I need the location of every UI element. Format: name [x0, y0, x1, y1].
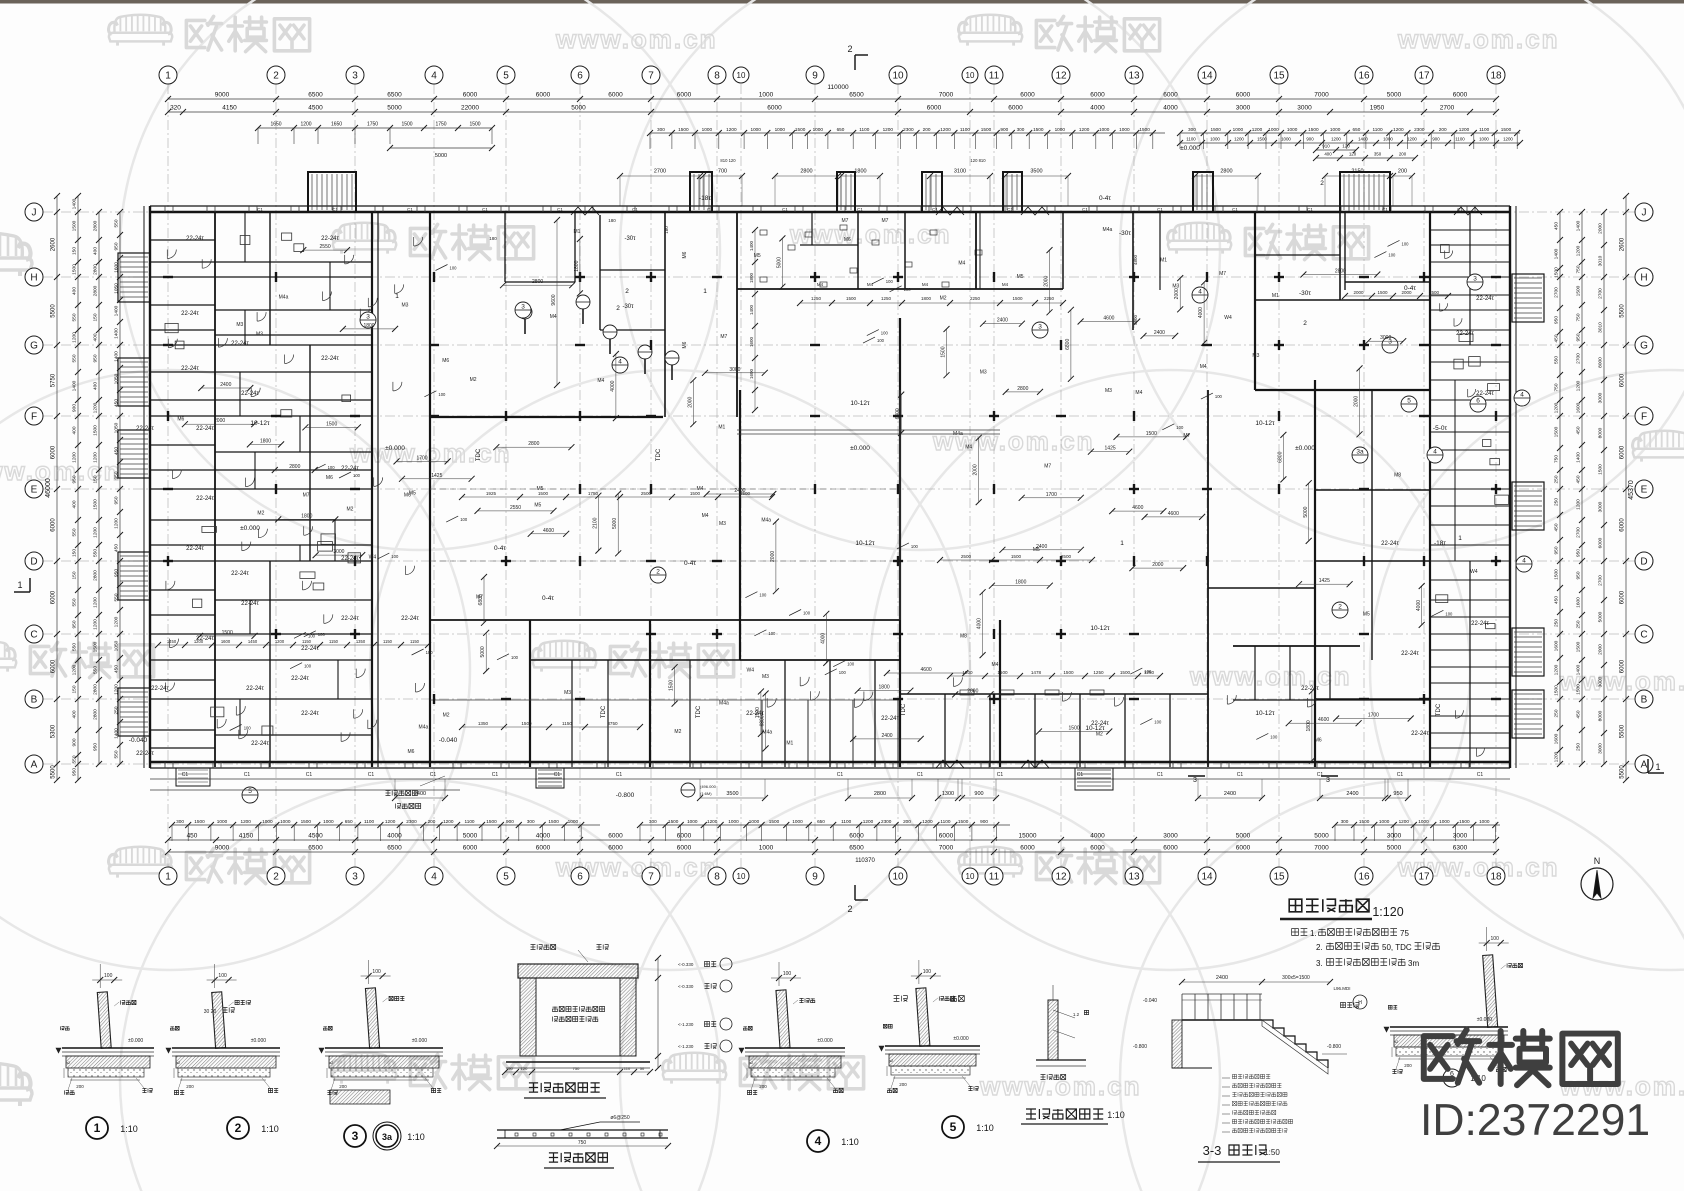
svg-text:2800: 2800 [93, 264, 99, 275]
svg-text:12: 12 [1055, 71, 1067, 82]
svg-text:1500: 1500 [668, 819, 679, 824]
svg-text:1:10: 1:10 [976, 1123, 994, 1133]
svg-text:2800: 2800 [93, 709, 99, 720]
svg-text:F: F [31, 412, 37, 423]
svg-text:1200: 1200 [72, 664, 78, 675]
svg-text:2250: 2250 [1044, 296, 1055, 301]
svg-text:2800: 2800 [93, 570, 99, 581]
svg-text:200: 200 [1404, 1063, 1412, 1068]
svg-text:2700: 2700 [1554, 287, 1560, 298]
svg-text:750: 750 [1554, 383, 1560, 391]
svg-text:5500: 5500 [51, 304, 57, 318]
svg-text:15000: 15000 [1018, 833, 1036, 840]
svg-text:6300: 6300 [1453, 845, 1468, 852]
svg-text:1: 1 [1655, 762, 1660, 772]
svg-text:1200: 1200 [863, 819, 874, 824]
svg-text:C1: C1 [997, 772, 1004, 778]
svg-text:5: 5 [950, 1120, 957, 1134]
svg-text:M1: M1 [574, 229, 581, 235]
svg-text:M4: M4 [958, 261, 965, 267]
svg-text:1750: 1750 [588, 491, 599, 496]
svg-text:5000: 5000 [463, 833, 478, 840]
svg-text:1500: 1500 [93, 641, 99, 652]
svg-text:3000: 3000 [1598, 676, 1604, 687]
svg-text:6: 6 [1476, 398, 1480, 405]
svg-text:300: 300 [527, 819, 535, 824]
svg-text:6500: 6500 [308, 92, 323, 99]
svg-text:100: 100 [839, 670, 847, 675]
svg-text:E: E [1641, 485, 1648, 496]
svg-text:100: 100 [450, 266, 458, 271]
svg-text:<-1.230: <-1.230 [678, 1022, 694, 1027]
svg-text:6000: 6000 [1090, 92, 1105, 99]
svg-text:100: 100 [783, 971, 792, 977]
svg-text:2000: 2000 [687, 396, 693, 407]
svg-text:5500: 5500 [1620, 724, 1626, 738]
svg-text:4: 4 [1520, 392, 1524, 399]
svg-text:1500: 1500 [1501, 127, 1512, 132]
svg-text:±0.000: ±0.000 [953, 1036, 968, 1042]
svg-text:1450: 1450 [248, 639, 258, 644]
svg-text:6000: 6000 [1620, 659, 1626, 673]
svg-text:2300: 2300 [406, 819, 417, 824]
svg-text:9600: 9600 [551, 294, 557, 305]
svg-text:1500: 1500 [1069, 726, 1080, 732]
svg-text:M4a: M4a [419, 725, 429, 731]
svg-text:100: 100 [904, 287, 912, 292]
svg-text:1200: 1200 [93, 527, 99, 538]
svg-text:±0.000: ±0.000 [128, 1038, 143, 1044]
svg-text:1250: 1250 [1093, 670, 1104, 675]
svg-text:450: 450 [187, 833, 198, 840]
svg-text:0-4τ: 0-4τ [1404, 285, 1416, 292]
svg-text:M3: M3 [402, 303, 409, 309]
svg-text:C1: C1 [1397, 772, 1404, 778]
svg-text:1400: 1400 [749, 304, 754, 315]
svg-text:1: 1 [165, 71, 171, 82]
svg-text:6800: 6800 [478, 594, 484, 605]
svg-text:7000: 7000 [939, 92, 954, 99]
svg-text:100: 100 [1491, 936, 1500, 942]
svg-text:10-12τ: 10-12τ [1090, 625, 1110, 632]
svg-text:C1: C1 [407, 207, 413, 212]
svg-text:400: 400 [93, 382, 99, 390]
svg-text:8: 8 [714, 872, 720, 883]
svg-text:1.2: 1.2 [1073, 1012, 1080, 1017]
svg-text:6000: 6000 [608, 845, 623, 852]
svg-text:6000: 6000 [1090, 845, 1105, 852]
svg-text:C: C [1640, 630, 1647, 641]
svg-text:15: 15 [1273, 71, 1285, 82]
svg-text:900: 900 [72, 738, 78, 746]
svg-text:950: 950 [1554, 546, 1560, 554]
svg-text:1500: 1500 [669, 680, 675, 691]
svg-text:1700: 1700 [416, 455, 427, 461]
svg-text:W4: W4 [1224, 315, 1232, 321]
svg-text:C1: C1 [430, 772, 437, 778]
svg-text:45370: 45370 [1628, 480, 1635, 500]
svg-text:4150: 4150 [222, 105, 237, 112]
svg-text:1150: 1150 [329, 639, 339, 644]
svg-text:22-24τ: 22-24τ [181, 366, 199, 372]
svg-text:G: G [1640, 341, 1648, 352]
svg-text:3000: 3000 [1453, 833, 1468, 840]
svg-text:W4: W4 [1470, 569, 1478, 575]
svg-text:900: 900 [1432, 137, 1440, 142]
svg-text:22-24τ: 22-24τ [186, 546, 204, 552]
svg-text:250: 250 [1554, 475, 1560, 483]
svg-text:550: 550 [72, 354, 78, 362]
svg-text:1200: 1200 [1554, 402, 1560, 413]
svg-text:2800: 2800 [967, 688, 978, 694]
svg-text:a2: a2 [176, 1060, 181, 1065]
svg-text:6500: 6500 [387, 92, 402, 99]
svg-text:M2: M2 [470, 377, 477, 383]
svg-text:400: 400 [93, 247, 99, 255]
svg-text:5: 5 [503, 872, 509, 883]
svg-text:100: 100 [881, 331, 889, 336]
svg-text:5000: 5000 [1314, 833, 1329, 840]
svg-text:5000: 5000 [776, 257, 782, 268]
svg-text:22-24τ: 22-24τ [241, 601, 259, 607]
svg-text:1600: 1600 [1576, 597, 1582, 608]
svg-text:1800: 1800 [921, 296, 932, 301]
svg-text:2800: 2800 [93, 684, 99, 695]
svg-text:12: 12 [1055, 872, 1067, 883]
svg-text:4: 4 [1433, 449, 1437, 456]
svg-text:1500: 1500 [72, 220, 78, 231]
svg-text:2: 2 [656, 569, 660, 576]
svg-text:1:10: 1:10 [120, 1124, 138, 1134]
svg-text:2000: 2000 [1354, 396, 1360, 407]
svg-text:900: 900 [1306, 137, 1314, 142]
svg-text:6800: 6800 [895, 408, 901, 419]
svg-text:W4: W4 [747, 668, 755, 674]
svg-text:C1: C1 [917, 772, 924, 778]
svg-text:2800: 2800 [532, 279, 543, 285]
svg-text:±0.000: ±0.000 [1477, 1017, 1492, 1023]
svg-text:1500: 1500 [958, 819, 969, 824]
svg-text:100: 100 [1402, 241, 1410, 246]
svg-text:M4: M4 [702, 513, 709, 519]
svg-text:200: 200 [1398, 169, 1407, 175]
svg-text:9000: 9000 [215, 845, 230, 852]
svg-text:1400: 1400 [749, 240, 754, 251]
svg-text:2: 2 [1338, 604, 1342, 611]
svg-text:C1: C1 [1232, 207, 1238, 212]
svg-text:8000: 8000 [1598, 357, 1604, 368]
svg-text:4500: 4500 [308, 105, 323, 112]
svg-text:950: 950 [93, 354, 99, 362]
svg-text:-0.040: -0.040 [1143, 998, 1157, 1004]
svg-text:750: 750 [1576, 313, 1582, 321]
svg-text:120: 120 [521, 1066, 528, 1071]
svg-text:M3: M3 [236, 322, 243, 328]
svg-text:100: 100 [1154, 720, 1162, 725]
svg-text:100: 100 [759, 593, 767, 598]
svg-text:3010: 3010 [1598, 255, 1604, 266]
svg-text:M6: M6 [844, 237, 851, 243]
svg-text:1925: 1925 [486, 491, 497, 496]
svg-text:300: 300 [176, 819, 184, 824]
svg-text:22-24τ: 22-24τ [291, 676, 309, 682]
svg-text:C1: C1 [482, 207, 488, 212]
svg-text:6000: 6000 [1620, 518, 1626, 532]
svg-text:200: 200 [903, 819, 911, 824]
svg-text:TDC: TDC [1436, 703, 1442, 716]
svg-text:2000: 2000 [770, 551, 776, 562]
svg-text:1200: 1200 [1554, 664, 1560, 675]
svg-text:950: 950 [72, 475, 78, 483]
svg-text:-0.040: -0.040 [129, 737, 148, 744]
svg-text:1500: 1500 [1554, 685, 1560, 696]
svg-text:1400: 1400 [114, 328, 120, 339]
svg-text:0-4τ: 0-4τ [542, 595, 554, 602]
svg-text:950: 950 [93, 743, 99, 751]
svg-text:14: 14 [1201, 71, 1213, 82]
svg-text:4000: 4000 [1163, 105, 1178, 112]
svg-text:3000: 3000 [1236, 105, 1251, 112]
svg-text:550: 550 [114, 750, 120, 758]
svg-text:6000: 6000 [677, 845, 692, 852]
svg-text:10: 10 [737, 872, 746, 881]
svg-text:1800: 1800 [1306, 720, 1312, 731]
svg-text:10: 10 [892, 872, 904, 883]
svg-text:10-12τ: 10-12τ [250, 420, 270, 427]
svg-text:180: 180 [608, 218, 616, 223]
svg-text:250: 250 [1554, 498, 1560, 506]
svg-text:50: 50 [640, 1066, 645, 1071]
svg-text:22-24τ: 22-24τ [231, 341, 249, 347]
svg-text:C1: C1 [932, 207, 938, 212]
svg-text:1500: 1500 [846, 296, 857, 301]
svg-text:-30τ: -30τ [624, 236, 636, 242]
svg-text:C1: C1 [1157, 772, 1164, 778]
svg-text:4: 4 [431, 872, 437, 883]
svg-text:TDC: TDC [696, 705, 702, 718]
svg-text:-18τ: -18τ [699, 195, 711, 202]
svg-text:6500: 6500 [308, 845, 323, 852]
svg-text:90: 90 [508, 1066, 513, 1071]
svg-text:4600: 4600 [1168, 511, 1179, 517]
svg-text:a2: a2 [749, 1060, 754, 1065]
svg-text:100: 100 [886, 279, 894, 284]
svg-text:1500: 1500 [1033, 127, 1044, 132]
svg-text:6000: 6000 [51, 590, 57, 604]
svg-text:E: E [31, 485, 38, 496]
svg-text:450: 450 [1576, 475, 1582, 483]
svg-text:2100: 2100 [592, 517, 598, 528]
svg-text:5300: 5300 [51, 724, 57, 738]
svg-text:M5: M5 [534, 502, 541, 508]
svg-text:22-24τ: 22-24τ [1471, 621, 1489, 627]
svg-text:1500: 1500 [1146, 431, 1157, 437]
svg-text:1500: 1500 [1576, 684, 1582, 695]
svg-text:2: 2 [847, 904, 852, 914]
svg-text:6000: 6000 [767, 105, 782, 112]
svg-text:100: 100 [1176, 425, 1184, 430]
svg-text:22-24τ: 22-24τ [196, 426, 214, 432]
svg-text:100: 100 [511, 655, 519, 660]
svg-text:6000: 6000 [536, 845, 551, 852]
svg-text:±0.000: ±0.000 [251, 1038, 266, 1044]
svg-text:1200: 1200 [1576, 499, 1582, 510]
svg-text:1000: 1000 [813, 127, 824, 132]
svg-text:22-24τ: 22-24τ [401, 616, 419, 622]
svg-text:1500: 1500 [1359, 819, 1370, 824]
svg-text:M4: M4 [1200, 364, 1207, 370]
svg-text:1200: 1200 [1252, 127, 1263, 132]
svg-text:450: 450 [1576, 426, 1582, 434]
svg-text:1500: 1500 [326, 421, 337, 427]
svg-text:120: 120 [1349, 152, 1357, 157]
svg-text:±0.000: ±0.000 [412, 1038, 427, 1044]
svg-text:M4a: M4a [719, 701, 729, 707]
svg-text:6000: 6000 [849, 833, 864, 840]
svg-text:1000: 1000 [1418, 819, 1429, 824]
svg-text:1000: 1000 [750, 127, 761, 132]
svg-text:2700: 2700 [1576, 353, 1582, 364]
svg-text:950: 950 [114, 242, 120, 250]
svg-text:3: 3 [1038, 324, 1042, 331]
svg-text:200: 200 [899, 1082, 907, 1087]
svg-text:5000: 5000 [1303, 506, 1309, 517]
svg-text:1500: 1500 [1210, 127, 1221, 132]
svg-text:-18τ: -18τ [1434, 540, 1446, 547]
svg-text:200: 200 [186, 1084, 194, 1089]
svg-text:3500: 3500 [1030, 169, 1042, 175]
svg-text:3.: 3. [1316, 959, 1323, 968]
svg-text:1: 1 [1120, 540, 1124, 547]
svg-text:250: 250 [1576, 743, 1582, 751]
svg-text:M7: M7 [1044, 463, 1051, 469]
svg-text:1600: 1600 [1554, 640, 1560, 651]
svg-text:16: 16 [1358, 71, 1370, 82]
svg-text:1000: 1000 [262, 819, 273, 824]
svg-text:150: 150 [72, 549, 78, 557]
svg-text:0-4τ: 0-4τ [684, 560, 696, 567]
svg-text:1300: 1300 [942, 791, 954, 797]
svg-text:3: 3 [366, 314, 370, 321]
svg-text:2500: 2500 [961, 554, 972, 559]
svg-text:200: 200 [1399, 152, 1407, 157]
svg-text:9: 9 [812, 71, 818, 82]
svg-text:10-12τ: 10-12τ [850, 400, 870, 407]
svg-text:M4: M4 [597, 378, 604, 384]
svg-text:1100: 1100 [1479, 127, 1489, 132]
svg-text:1100: 1100 [940, 819, 950, 824]
svg-text:7: 7 [648, 872, 654, 883]
svg-text:400: 400 [1324, 152, 1332, 157]
svg-text:810 120: 810 120 [720, 158, 736, 163]
svg-text:22-24τ: 22-24τ [151, 686, 169, 692]
svg-text:22-24τ: 22-24τ [231, 571, 249, 577]
svg-text:6000: 6000 [677, 92, 692, 99]
svg-text:1: 1 [17, 580, 22, 590]
svg-text:M7: M7 [842, 218, 849, 224]
svg-text:100: 100 [318, 632, 326, 637]
svg-text:C1: C1 [368, 772, 375, 778]
svg-text:2300: 2300 [1414, 127, 1425, 132]
svg-text:M1: M1 [1272, 293, 1279, 299]
svg-text:2: 2 [1303, 320, 1307, 327]
svg-text:11: 11 [989, 872, 1000, 883]
svg-text:2800: 2800 [874, 791, 886, 797]
svg-text:1200: 1200 [1234, 137, 1244, 142]
svg-text:300x5=1500: 300x5=1500 [1282, 975, 1310, 981]
svg-text:C1: C1 [857, 207, 863, 212]
svg-text:2: 2 [847, 44, 852, 54]
svg-text:950: 950 [1576, 549, 1582, 557]
svg-text:950: 950 [1393, 791, 1402, 797]
svg-text:1400: 1400 [1358, 137, 1368, 142]
svg-text:<-1.230: <-1.230 [678, 1044, 694, 1049]
svg-text:5000: 5000 [1387, 92, 1402, 99]
svg-text:3500: 3500 [726, 791, 738, 797]
svg-text:N: N [1594, 856, 1601, 866]
svg-text:1:10: 1:10 [1107, 1110, 1125, 1120]
svg-text:100: 100 [104, 973, 113, 979]
svg-text:1200: 1200 [93, 402, 99, 413]
svg-text:2500: 2500 [740, 491, 751, 496]
svg-text:3m: 3m [1408, 959, 1419, 968]
svg-text:1750: 1750 [435, 122, 446, 128]
svg-text:2000: 2000 [1353, 290, 1364, 295]
svg-text:1750: 1750 [367, 122, 378, 128]
svg-text:700: 700 [718, 169, 727, 175]
svg-text:2800: 2800 [1335, 269, 1346, 275]
svg-text:1500: 1500 [1011, 554, 1022, 559]
svg-text:6500: 6500 [849, 92, 864, 99]
svg-text:2: 2 [1320, 180, 1324, 187]
svg-text:4: 4 [431, 71, 437, 82]
svg-text:900: 900 [72, 404, 78, 412]
svg-text:450: 450 [1554, 222, 1560, 230]
svg-text:M7: M7 [882, 218, 889, 224]
svg-text:1500: 1500 [1063, 670, 1074, 675]
svg-text:<-0.330: <-0.330 [678, 984, 694, 989]
svg-text:M2: M2 [674, 729, 681, 735]
svg-text:3: 3 [352, 872, 358, 883]
svg-text:1425: 1425 [1105, 446, 1116, 452]
svg-text:1000: 1000 [1055, 127, 1066, 132]
svg-text:1500: 1500 [769, 819, 780, 824]
svg-text:2: 2 [625, 288, 629, 295]
svg-text:M4a: M4a [762, 729, 772, 735]
svg-text:M4: M4 [965, 444, 972, 450]
svg-text:5000: 5000 [435, 153, 447, 159]
svg-text:2000: 2000 [1598, 223, 1604, 234]
svg-text:750: 750 [1576, 265, 1582, 273]
svg-text:1700: 1700 [1046, 492, 1057, 498]
svg-text:550: 550 [72, 313, 78, 321]
svg-text:C: C [30, 630, 37, 641]
svg-text:2400: 2400 [220, 382, 231, 388]
svg-text:7: 7 [648, 71, 654, 82]
svg-text:1500: 1500 [93, 425, 99, 436]
svg-text:400: 400 [72, 426, 78, 434]
svg-text:6500: 6500 [849, 845, 864, 852]
svg-text:22-24τ: 22-24τ [251, 741, 269, 747]
svg-text:900: 900 [1000, 127, 1008, 132]
svg-text:650: 650 [345, 819, 353, 824]
svg-text:1200: 1200 [1331, 137, 1341, 142]
svg-text:6000: 6000 [608, 833, 623, 840]
svg-text:1600: 1600 [221, 639, 231, 644]
svg-text:1500: 1500 [1554, 569, 1560, 580]
svg-text:100: 100 [877, 338, 885, 343]
svg-text:4000: 4000 [977, 618, 983, 629]
